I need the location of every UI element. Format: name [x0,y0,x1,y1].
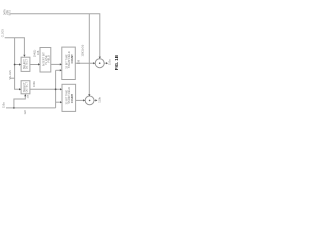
wire [94,99,96,101]
junction dot [55,88,57,90]
junction dot [13,107,15,109]
arrowhead into box B left [38,63,40,65]
svg-text:118(1)-(N): 118(1)-(N) [80,45,84,57]
box C [21,81,30,94]
wire [30,88,61,90]
wire [15,38,21,90]
wire [56,101,61,103]
svg-text:CLOCK: CLOCK [2,29,5,38]
svg-text:FIG. 1B: FIG. 1B [114,54,119,70]
svg-text:DETECT: DETECT [25,58,29,69]
arrowhead into box A left [19,63,21,65]
svg-text:FIELD: FIELD [47,55,51,62]
wire [14,94,25,108]
arrowhead into box F input2 [60,101,62,103]
svg-text:116a: 116a [2,102,6,108]
wire [30,64,39,66]
box B [40,48,51,73]
svg-text:COUNT: COUNT [70,94,74,104]
wire [56,69,61,71]
arrowhead into circle1 top [99,57,101,59]
adder circle 2 [85,96,94,105]
svg-text:106: 106 [36,50,40,55]
svg-text:COUNT: COUNT [70,54,74,64]
arrowhead into box E input1 [60,63,62,65]
wire [55,70,57,108]
wire [11,77,15,79]
svg-text:110a: 110a [108,59,112,65]
svg-text:VALUES: VALUES [9,70,12,80]
wire [15,64,21,66]
arrowhead into circle2 left [83,99,85,101]
arrowhead into box F input1 [60,88,62,90]
svg-text:122: 122 [23,110,27,115]
wire [104,62,106,64]
junction dot [14,64,16,66]
arrowhead circle2 output [95,99,97,101]
svg-text:108: 108 [76,59,80,64]
svg-text:110b: 110b [97,97,101,103]
svg-text:BITS: BITS [8,10,11,16]
arrowhead into box A top [23,55,25,57]
arrowhead circle1 output [106,62,108,64]
svg-text:DETECT: DETECT [25,82,29,93]
wire [5,38,25,55]
box E [62,47,76,79]
wire [76,99,84,101]
arrowhead into box E input2 [60,69,62,71]
svg-text:104b: 104b [32,81,36,87]
arrowhead into circle2 top [88,94,90,96]
wire [10,14,100,57]
box F [62,84,76,111]
box A [21,57,30,71]
arrowhead into circle1 left [93,62,95,64]
wire [6,107,56,109]
arrowhead into box C bottom [24,94,26,96]
wire [88,14,90,95]
wire [75,62,94,64]
wire [51,63,61,65]
adder circle 1 [95,59,104,68]
arrowhead into box C left [19,88,21,90]
